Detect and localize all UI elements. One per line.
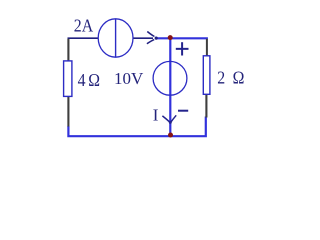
svg-text:4: 4	[78, 70, 86, 90]
svg-text:10V: 10V	[114, 69, 144, 88]
svg-text:Ω: Ω	[233, 67, 245, 87]
svg-text:I: I	[153, 105, 159, 124]
svg-text:2: 2	[217, 67, 225, 87]
svg-text:Ω: Ω	[88, 70, 100, 90]
svg-text:2A: 2A	[74, 16, 94, 36]
